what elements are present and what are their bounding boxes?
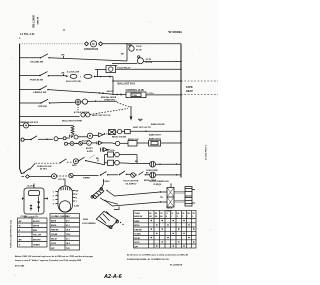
svg-text:A2-A-6: A2-A-6 (103, 274, 123, 280)
svg-text:MOLD SHUT R RTRH: MOLD SHUT R RTRH (62, 121, 83, 123)
svg-text:W 1/16: W 1/16 (146, 62, 153, 64)
svg-text:1B-4: 1B-4 (66, 229, 70, 232)
svg-text:TM AM: TM AM (134, 212, 140, 215)
svg-text:LJ 78L-4 D/: LJ 78L-4 D/ (20, 33, 35, 36)
svg-text:TABLE: TABLE (166, 207, 173, 210)
svg-text:PL-04 EDGS: PL-04 EDGS (170, 263, 183, 266)
svg-text:GAS R: GAS R (107, 90, 114, 93)
svg-text:CLEAN: CLEAN (51, 233, 58, 236)
svg-text:TM-4: TM-4 (66, 233, 70, 236)
svg-text:22-9148 PAGE 2: 22-9148 PAGE 2 (205, 144, 208, 160)
svg-text:TM: TM (160, 197, 163, 199)
svg-text:ECO-74B.: ECO-74B. (15, 264, 25, 267)
svg-text:TM-7: TM-7 (66, 216, 70, 218)
svg-text:BRN 24L GBY/B: BRN 24L GBY/B (101, 96, 117, 99)
svg-text:BROIL IGN: BROIL IGN (128, 139, 139, 141)
svg-text:PHG: PHG (133, 95, 138, 97)
svg-text:TM-1: TM-1 (66, 248, 70, 250)
svg-text:DELAY: DELAY (51, 238, 58, 241)
svg-text:BROIL: BROIL (51, 225, 57, 227)
svg-text:MOTOR THERM CON: MOTOR THERM CON (150, 181, 170, 183)
svg-text:W 1/4: W 1/4 (136, 48, 142, 51)
svg-text:1B-2: 1B-2 (66, 243, 70, 245)
svg-text:At all times we at DTES cause: At all times we at DTES cause a well-) c… (127, 254, 189, 257)
svg-text:WHITE: WHITE (33, 226, 40, 228)
svg-text:BROWN: BROWN (33, 240, 41, 242)
svg-text:HTR SW: HTR SW (38, 106, 48, 108)
svg-text:N: N (92, 42, 94, 46)
svg-text:4 MTR: 4 MTR (87, 150, 93, 153)
svg-text:A-280: A-280 (74, 204, 79, 207)
svg-text:HOLD: HOLD (134, 242, 140, 244)
svg-text:TIME BK: TIME BK (134, 230, 142, 232)
svg-text:PILOT LITE FOR: PILOT LITE FOR (124, 181, 139, 183)
svg-text:BAKE: BAKE (51, 220, 57, 223)
svg-text:BS DFT: BS DFT (86, 148, 94, 150)
svg-text:PUSH-IN SW: PUSH-IN SW (30, 79, 44, 81)
svg-text:D-554 A-DD4 LEVEL-16. CI DDBR: D-554 A-DD4 LEVEL-16. CI DDBRY PH. OS. (127, 258, 169, 261)
svg-text:W: W (19, 226, 21, 228)
svg-text:1/2 W: 1/2 W (146, 59, 151, 61)
svg-text:BROIL IGN SW: BROIL IGN SW (112, 137, 126, 139)
svg-text:FLUO PILOT: FLUO PILOT (118, 67, 132, 69)
svg-text:TIMER BK-AN SYS: TIMER BK-AN SYS (20, 121, 39, 124)
svg-text:TAPE: TAPE (186, 85, 193, 89)
svg-text:BALLAST 24 A: BALLAST 24 A (118, 83, 136, 86)
svg-text:RB-L14KD: RB-L14KD (32, 15, 35, 28)
svg-text:1: 1 (187, 216, 188, 218)
svg-text:MOX-D: MOX-D (107, 226, 114, 228)
svg-text:3: 3 (53, 199, 54, 201)
svg-text:BKT I-DH: BKT I-DH (106, 150, 115, 152)
svg-text:BAKE IGN R: BAKE IGN R (149, 137, 161, 140)
svg-text:AT KPL: AT KPL (40, 168, 48, 171)
svg-text:41-7: 41-7 (66, 238, 70, 241)
svg-text:Before 1983-1 W electrical eqp: Before 1983-1 W electrical eqpt must be … (15, 255, 94, 258)
svg-text:GREEN: GREEN (33, 245, 40, 247)
svg-text:HOLD: HOLD (51, 243, 57, 245)
svg-text:OVEN HTR: OVEN HTR (104, 99, 115, 101)
svg-text:CANDLE SW: CANDLE SW (33, 91, 47, 94)
svg-text:SHUT OFF VLV TH: SHUT OFF VLV TH (133, 127, 151, 129)
svg-text:lamps to new-D "blades" approv: lamps to new-D "blades" approve (3 weeks… (15, 259, 82, 262)
svg-text:SIGN: SIGN (83, 219, 88, 221)
svg-text:SHUT OFF VLV TH: SHUT OFF VLV TH (92, 115, 111, 117)
svg-text:41-7: 41-7 (66, 220, 70, 223)
svg-text:SWH: SWH (72, 165, 77, 167)
svg-text:BK: BK (62, 55, 66, 57)
svg-text:1: 1 (53, 191, 54, 193)
svg-text:BAKE IGN R: BAKE IGN R (149, 133, 161, 136)
svg-text:4 LOCK+TW: 4 LOCK+TW (67, 70, 79, 73)
svg-text:OVEN BULB: OVEN BULB (84, 48, 98, 51)
svg-text:T HELP: T HELP (103, 181, 110, 183)
svg-text:FORM 22-9148 PRINTED USA: FORM 22-9148 PRINTED USA (10, 220, 13, 248)
svg-text:BAKE SW: BAKE SW (134, 215, 142, 218)
svg-text:FLUO LITE SW: FLUO LITE SW (66, 81, 81, 83)
svg-text:LOCK WIRING: LOCK WIRING (82, 223, 96, 225)
svg-text:LOC-D: LOC-D (58, 179, 65, 181)
svg-text:HEAT: HEAT (186, 89, 193, 93)
svg-text:TIME BK: TIME BK (51, 230, 59, 232)
svg-text:SER 48: SER 48 (36, 16, 39, 24)
svg-text:F: F (182, 216, 183, 218)
svg-text:OIL RAPTLY: OIL RAPTLY (126, 183, 138, 186)
svg-text:BLACK: BLACK (33, 220, 40, 223)
svg-text:S: S (177, 216, 178, 218)
svg-text:IF REQD: IF REQD (154, 184, 162, 186)
svg-text:THERM: THERM (83, 177, 90, 179)
svg-text:'W' MODEL: 'W' MODEL (168, 30, 183, 34)
svg-text:DELAY: DELAY (134, 237, 141, 240)
svg-text:W: W (76, 194, 78, 196)
svg-text:4: 4 (53, 202, 54, 205)
svg-text:BAKE: BAKE (134, 220, 140, 223)
svg-text:YELLOW: YELLOW (33, 235, 41, 237)
svg-text:BROIL: BROIL (134, 225, 140, 227)
svg-text:41-2: 41-2 (66, 224, 70, 227)
svg-text:RED: RED (33, 230, 38, 232)
svg-text:ON-LINE SW: ON-LINE SW (30, 62, 44, 64)
svg-text:CL: CL (166, 213, 168, 215)
svg-text:OVEN LITE SW: OVEN LITE SW (37, 166, 51, 168)
svg-text:TMXH: TMXH (166, 211, 172, 213)
svg-text:1/3 W: 1/3 W (136, 46, 141, 48)
svg-text:DL: DL (171, 213, 173, 215)
svg-text:OF: OF (182, 213, 184, 215)
svg-text:BAKE IGN SW: BAKE IGN SW (151, 123, 165, 126)
svg-text:2: 2 (53, 195, 54, 197)
svg-text:2: 2 (192, 216, 193, 218)
svg-text:CLEAN: CLEAN (134, 233, 141, 236)
svg-text:CLOCK: CLOCK (51, 216, 58, 218)
